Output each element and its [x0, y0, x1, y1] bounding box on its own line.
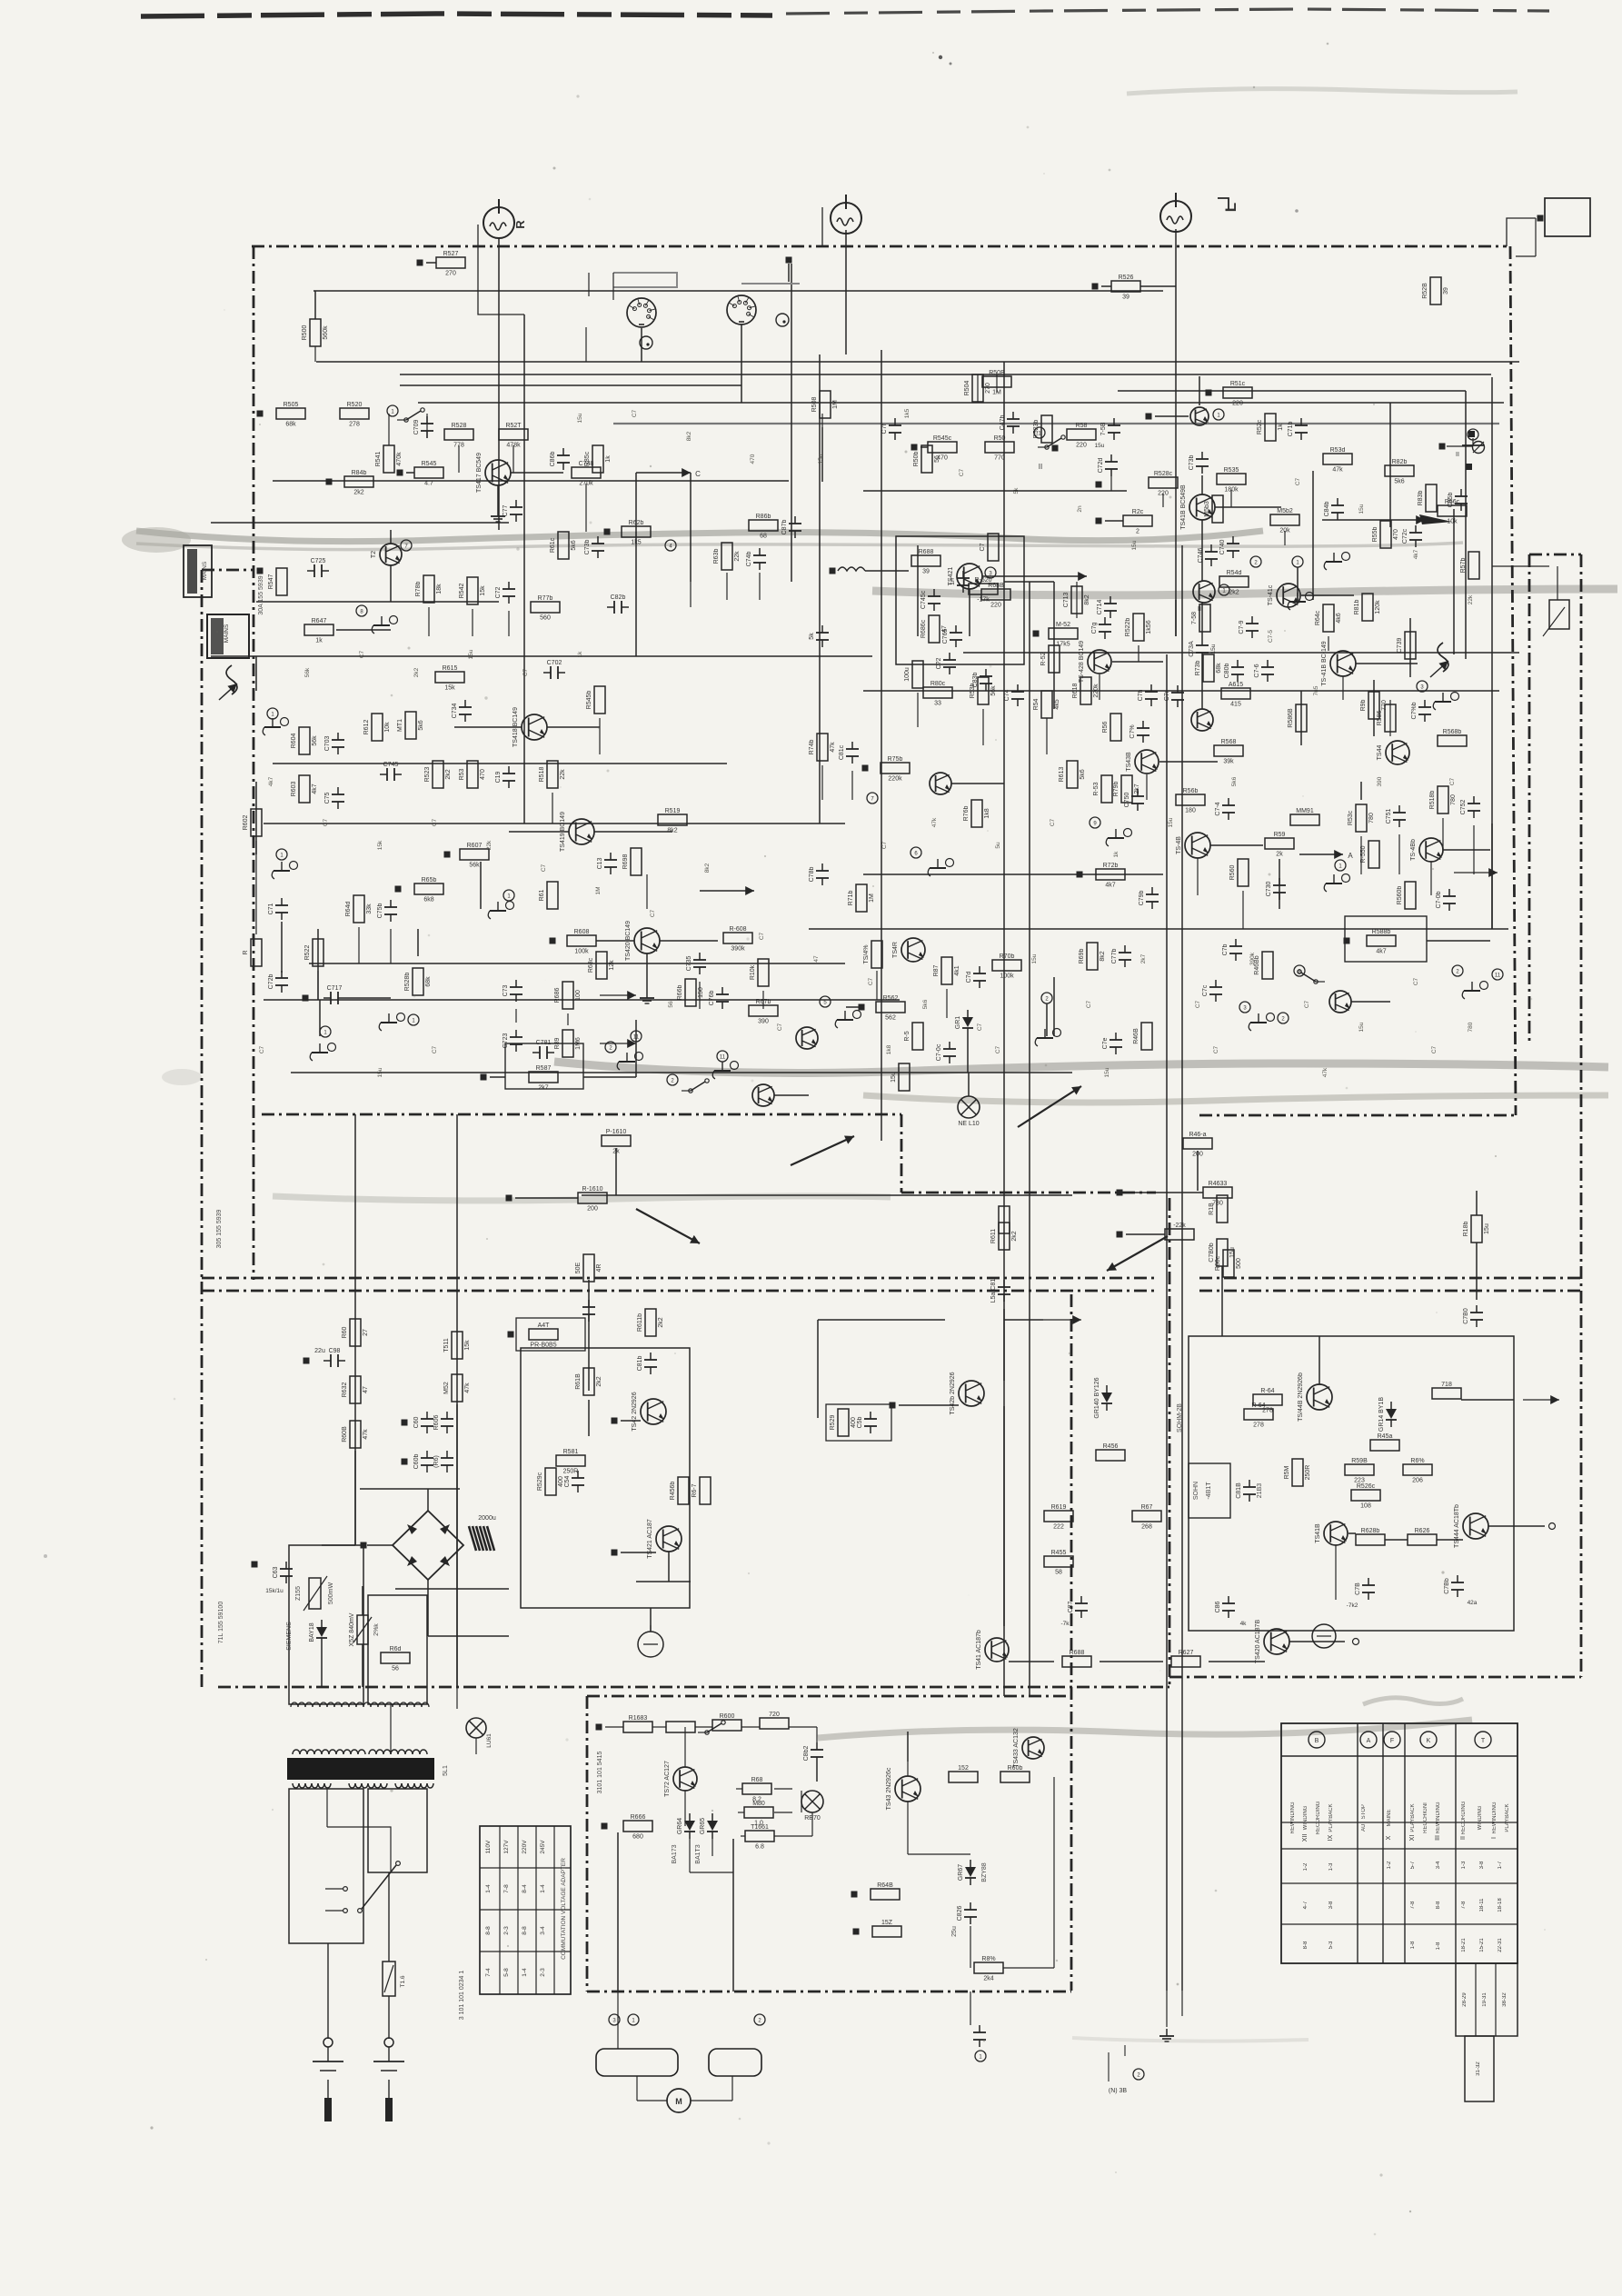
wire	[920, 446, 928, 448]
svg-text:R647: R647	[312, 618, 327, 624]
transistor TS420 BC149	[625, 921, 660, 961]
svg-text:C7: C7	[995, 1045, 1001, 1053]
svg-text:18-11: 18-11	[1479, 1898, 1485, 1912]
wire	[1476, 1191, 1478, 1215]
border motor box left	[586, 1696, 589, 1992]
arrow	[700, 890, 754, 892]
gray wire loop around DIN	[613, 273, 800, 287]
svg-text:206: 206	[1412, 1478, 1423, 1484]
wire	[865, 570, 909, 572]
capacitor C714	[1097, 596, 1117, 618]
node 7	[867, 793, 878, 804]
svg-text:8k2: 8k2	[704, 863, 711, 873]
svg-text:SOHN: SOHN	[1193, 1482, 1199, 1500]
capacitor	[582, 1300, 595, 1322]
wire	[395, 1588, 509, 1590]
wire	[336, 629, 391, 631]
wire	[360, 1488, 460, 1490]
wire	[907, 1762, 909, 1776]
resistor R688	[911, 549, 940, 575]
resistor TS/4%	[863, 941, 882, 968]
svg-text:III: III	[1435, 1835, 1441, 1841]
svg-text:18-18: 18-18	[1498, 1898, 1503, 1912]
svg-text:68k: 68k	[1216, 663, 1222, 674]
svg-text:II: II	[1456, 452, 1459, 458]
wire	[970, 1926, 971, 1968]
capacitor C98	[323, 1348, 345, 1367]
resistor R9b	[1360, 692, 1388, 719]
svg-text:C752: C752	[1460, 800, 1467, 815]
svg-text:REWINDING: REWINDING	[1492, 1802, 1498, 1833]
resistor R85c	[584, 445, 612, 473]
arrow	[1523, 1399, 1559, 1401]
svg-text:M5b2: M5b2	[1277, 508, 1293, 514]
svg-text:REWINDING: REWINDING	[1290, 1802, 1296, 1833]
svg-text:C19: C19	[495, 771, 502, 783]
capacitor C723	[503, 1030, 522, 1052]
svg-text:5k6: 5k6	[418, 720, 424, 730]
svg-text:5k6: 5k6	[1394, 479, 1404, 485]
resistor C7	[980, 534, 999, 561]
svg-text:15u: 15u	[891, 1072, 897, 1083]
svg-text:470: 470	[750, 454, 756, 464]
capacitor C735	[686, 953, 706, 974]
svg-text:15k: 15k	[444, 685, 455, 692]
svg-text:R518b: R518b	[1429, 791, 1436, 810]
svg-text:4k7: 4k7	[1376, 949, 1386, 955]
wire	[1360, 782, 1362, 800]
wire	[1201, 520, 1203, 581]
svg-text:B: B	[1315, 1738, 1319, 1744]
svg-text:C87: C87	[1068, 1601, 1074, 1612]
svg-text:C765: C765	[942, 629, 949, 644]
resistor R73b	[1195, 654, 1222, 682]
wire	[1491, 824, 1493, 929]
svg-text:TS41B BC549B: TS41B BC549B	[1180, 484, 1187, 530]
ground	[310, 1043, 335, 1062]
svg-text:42a: 42a	[1468, 1600, 1478, 1606]
svg-text:22k: 22k	[486, 840, 493, 850]
svg-text:C72d: C72d	[1098, 458, 1104, 474]
resistor R62b	[622, 520, 651, 546]
svg-text:R18b: R18b	[1463, 1222, 1469, 1237]
svg-text:R-64: R-64	[1260, 1388, 1274, 1394]
resistor R-5	[904, 1023, 923, 1050]
resistor R-550	[1360, 841, 1379, 868]
border box1 bottom mid segment	[901, 1192, 1156, 1194]
svg-text:15u: 15u	[1031, 953, 1038, 963]
border section2 top double line upper	[202, 1277, 1156, 1280]
svg-text:R72b: R72b	[1103, 863, 1119, 869]
erase head	[1430, 643, 1448, 677]
resistor R619	[1044, 1504, 1073, 1531]
svg-text:A: A	[1367, 1738, 1371, 1744]
svg-text:MT1: MT1	[397, 719, 403, 732]
svg-text:56: 56	[934, 455, 940, 463]
terminal	[402, 1420, 408, 1426]
inductor L5	[838, 567, 865, 571]
svg-text:C7-6: C7-6	[1254, 664, 1260, 677]
arrow	[791, 1136, 854, 1165]
wire	[1215, 506, 1281, 508]
svg-text:56k: 56k	[304, 667, 311, 677]
svg-text:R70b: R70b	[1000, 953, 1015, 960]
wire trunk	[309, 963, 845, 964]
transistor	[796, 1027, 818, 1049]
wire	[817, 1320, 819, 1418]
arrow	[600, 994, 636, 996]
svg-text:15u: 15u	[377, 1067, 383, 1077]
terminal	[1096, 482, 1102, 488]
diode GR140 BY126	[1094, 1377, 1112, 1418]
node 1	[1213, 409, 1224, 420]
capacitor C717	[323, 985, 345, 1004]
svg-text:R627: R627	[1179, 1650, 1194, 1656]
svg-text:R4633: R4633	[1209, 1181, 1228, 1187]
terminal	[304, 1358, 310, 1364]
svg-text:22u: 22u	[314, 1348, 325, 1354]
svg-text:R84b: R84b	[352, 470, 367, 476]
svg-text:R: R	[243, 950, 249, 954]
svg-text:-4B1T: -4B1T	[1206, 1482, 1212, 1500]
svg-text:7-5B: 7-5B	[1100, 422, 1107, 435]
capacitor C781	[532, 1040, 554, 1059]
wire	[317, 929, 319, 1000]
svg-text:R54: R54	[1033, 698, 1040, 710]
wire	[497, 485, 499, 509]
capacitor C76b	[709, 987, 729, 1009]
svg-text:3-4: 3-4	[1436, 1861, 1441, 1869]
lamp NE L10	[958, 1096, 980, 1127]
resistor R618	[1072, 677, 1100, 704]
svg-text:C7-9: C7-9	[1239, 620, 1245, 634]
svg-text:R65b: R65b	[422, 877, 437, 883]
switch contact	[682, 1079, 709, 1093]
svg-text:C13: C13	[597, 857, 603, 869]
svg-text:15u: 15u	[468, 649, 474, 659]
svg-text:152: 152	[958, 1765, 969, 1772]
wire	[1126, 1233, 1165, 1235]
svg-text:C71b: C71b	[1288, 422, 1294, 437]
svg-text:PLAYBACK: PLAYBACK	[1505, 1803, 1510, 1832]
node 7	[401, 540, 412, 551]
capacitor C71	[268, 898, 288, 920]
node 2	[1278, 1013, 1289, 1023]
lower winding boxes	[289, 1789, 363, 1943]
svg-text:-17k: -17k	[977, 597, 990, 604]
capacitor C750	[1124, 789, 1144, 811]
wire	[791, 480, 792, 482]
svg-text:GR14 BY1B: GR14 BY1B	[1378, 1397, 1385, 1432]
resistor R68c	[588, 952, 615, 979]
resistor R53c	[1348, 804, 1375, 832]
svg-text:R528: R528	[452, 423, 467, 429]
wire	[621, 1552, 656, 1553]
wire	[668, 1552, 670, 1582]
wire	[1175, 600, 1177, 636]
wire vertical	[456, 1114, 458, 1687]
wire	[1279, 859, 1280, 909]
wire	[509, 831, 569, 833]
wire	[1140, 285, 1176, 287]
svg-text:C8b2: C8b2	[803, 1746, 810, 1762]
ground	[1288, 593, 1313, 611]
svg-text:R52B: R52B	[1422, 283, 1428, 299]
border box1 bottom left segment	[262, 1113, 901, 1116]
capacitor C7Bb	[1444, 1575, 1464, 1597]
transistor TS43B	[1126, 750, 1159, 774]
svg-text:XII: XII	[1302, 1834, 1309, 1842]
transistor TS41 AC187b	[976, 1630, 1009, 1670]
svg-text:R455: R455	[1051, 1550, 1067, 1556]
svg-text:3-8: 3-8	[1328, 1901, 1334, 1909]
svg-text:390: 390	[758, 1019, 769, 1025]
node 2	[667, 1074, 678, 1085]
terminal	[397, 470, 403, 476]
resistor R55b	[1372, 521, 1399, 548]
svg-text:470: 470	[1393, 529, 1399, 540]
svg-text:58: 58	[1055, 1570, 1062, 1576]
svg-text:C81c: C81c	[839, 744, 845, 760]
wire	[650, 1608, 652, 1632]
svg-text:R611: R611	[990, 1229, 997, 1243]
svg-text:220: 220	[1232, 401, 1243, 407]
svg-text:C750: C750	[1124, 793, 1130, 808]
ground	[1462, 982, 1488, 1000]
svg-text:4-7: 4-7	[1303, 1901, 1309, 1909]
node 2	[1250, 556, 1261, 567]
svg-text:22k: 22k	[734, 551, 741, 562]
svg-text:R50: R50	[994, 435, 1006, 442]
wire to motor plug	[970, 1992, 971, 2025]
ground	[1159, 2029, 1174, 2041]
svg-text:4k7: 4k7	[1105, 883, 1115, 889]
svg-text:R523: R523	[424, 767, 431, 783]
svg-text:C7: C7	[259, 1045, 265, 1053]
pot in right dashed box	[1549, 600, 1569, 629]
wire	[1201, 660, 1203, 709]
svg-text:1-8: 1-8	[1410, 1941, 1416, 1949]
svg-text:R603: R603	[291, 782, 297, 797]
resistor R5M	[1284, 1459, 1311, 1486]
trim pot right top	[1473, 442, 1485, 454]
node 1	[975, 2051, 986, 2061]
resistor R611	[990, 1223, 1018, 1250]
switch contact	[1298, 970, 1325, 983]
wire	[585, 327, 587, 362]
svg-text:M: M	[675, 2097, 682, 2106]
svg-text:C76b: C76b	[709, 991, 715, 1006]
wire head R frame	[478, 225, 524, 314]
lower coil bumps	[293, 1783, 433, 1788]
svg-text:R50b: R50b	[913, 452, 920, 467]
capacitor C60b	[413, 1451, 433, 1472]
svg-text:TS-41c: TS-41c	[1268, 584, 1274, 605]
capacitor C84b	[1324, 498, 1344, 520]
resistor R50B	[982, 370, 1011, 396]
wire	[419, 266, 421, 291]
wire	[899, 1404, 959, 1406]
svg-text:400: 400	[851, 1417, 857, 1428]
svg-text:TS44: TS44	[1377, 745, 1383, 761]
resistor R586	[1377, 704, 1396, 732]
resistor R-64	[1253, 1388, 1282, 1414]
wire	[1418, 621, 1556, 623]
wire	[1169, 1191, 1170, 1331]
gray scribble above table	[1363, 1698, 1463, 1704]
svg-text:R666: R666	[631, 1814, 646, 1821]
svg-text:15k/1u: 15k/1u	[265, 1588, 284, 1594]
svg-text:1k56: 1k56	[1146, 620, 1152, 634]
capacitor 7-5B	[1100, 418, 1120, 440]
svg-text:R56b: R56b	[1183, 788, 1199, 794]
capacitor C73	[503, 980, 522, 1002]
resistor R686c	[920, 615, 948, 643]
wire	[684, 1791, 686, 1826]
node 1	[1292, 556, 1303, 567]
svg-text:5k6: 5k6	[922, 999, 929, 1009]
L bracket mark	[1218, 198, 1229, 209]
svg-text:BA1T3: BA1T3	[695, 1844, 702, 1864]
wire	[689, 1839, 691, 1872]
wire vertical	[498, 239, 500, 530]
border section2 top double line lower	[202, 1290, 1156, 1293]
svg-text:C7: C7	[1449, 777, 1456, 785]
resistor R611b	[637, 1309, 664, 1336]
wire	[635, 1020, 637, 1077]
svg-text:T: T	[1481, 1738, 1486, 1744]
svg-text:R529c: R529c	[537, 1472, 543, 1491]
wire transformer down-right	[388, 1872, 390, 1962]
svg-text:15u: 15u	[1131, 540, 1138, 550]
svg-text:1k5: 1k5	[904, 408, 911, 418]
resistor R4633	[1203, 1181, 1232, 1207]
svg-text:C740: C740	[1219, 540, 1226, 555]
switch contact	[397, 408, 424, 422]
svg-text:R1B: R1B	[1209, 1203, 1215, 1215]
wire	[1216, 479, 1218, 494]
arrow	[1454, 872, 1498, 873]
ground	[835, 1011, 861, 1029]
resistor R-52	[1040, 645, 1060, 673]
resistor R46B	[1133, 1023, 1152, 1050]
svg-text:718: 718	[1441, 1382, 1452, 1388]
resistor R518b	[1429, 786, 1457, 814]
node 2	[1452, 965, 1463, 976]
resistor R613	[1059, 761, 1086, 788]
capacitor C5b	[857, 1412, 877, 1433]
resistor R81b	[1354, 594, 1381, 621]
svg-text:8-8: 8-8	[1436, 1901, 1441, 1909]
svg-text:1k: 1k	[605, 455, 612, 463]
transistor	[1191, 709, 1213, 731]
capacitor C7b	[1222, 939, 1242, 961]
svg-text:C702: C702	[547, 660, 562, 666]
svg-text:R73b: R73b	[1195, 661, 1201, 676]
resistor R6%	[1403, 1458, 1432, 1484]
svg-text:47k: 47k	[830, 742, 836, 753]
svg-text:C7c: C7c	[1202, 984, 1209, 996]
svg-text:BAY18: BAY18	[309, 1622, 315, 1642]
svg-text:R45a: R45a	[1378, 1433, 1393, 1440]
resistor R61B	[575, 1368, 602, 1395]
node 1	[1335, 860, 1346, 871]
svg-text:305 155 5939: 305 155 5939	[216, 1209, 223, 1248]
wire	[1535, 218, 1537, 256]
wire	[1009, 1661, 1054, 1662]
svg-text:C7: C7	[959, 468, 965, 476]
svg-text:TS41B: TS41B	[1315, 1523, 1321, 1543]
capacitor C81b	[637, 1353, 657, 1374]
arrow	[636, 472, 691, 474]
svg-text:P-1610: P-1610	[606, 1129, 627, 1135]
transistor TS4R	[892, 938, 925, 962]
svg-text:C63: C63	[273, 1566, 279, 1578]
svg-text:R60: R60	[342, 1326, 348, 1338]
svg-text:R612: R612	[363, 720, 370, 735]
svg-text:RECCHIGNI: RECCHIGNI	[1423, 1802, 1428, 1833]
svg-text:-22k: -22k	[1173, 1223, 1186, 1229]
svg-text:R55b: R55b	[1372, 527, 1378, 543]
resistor R526c	[1351, 1483, 1380, 1510]
wire trunk	[309, 823, 845, 824]
svg-text:R586B: R586B	[1288, 708, 1294, 728]
svg-text:TS42b 2N2926: TS42b 2N2926	[950, 1372, 956, 1414]
svg-text:390k: 390k	[1249, 952, 1256, 965]
svg-text:R53c: R53c	[1348, 810, 1354, 825]
svg-text:R527: R527	[443, 251, 459, 257]
resistor R60B	[342, 1421, 369, 1448]
resistor R6d	[381, 1646, 410, 1672]
node 9	[1090, 817, 1100, 828]
svg-text:5-3: 5-3	[1328, 1941, 1334, 1949]
resistor P-1610	[602, 1129, 631, 1155]
capacitor C13	[597, 853, 617, 874]
svg-text:R60B: R60B	[342, 1426, 348, 1442]
wire	[1301, 594, 1354, 596]
wire vertical	[690, 473, 692, 582]
transistor TS433 AC132	[1013, 1728, 1044, 1768]
svg-text:R77b: R77b	[538, 595, 553, 602]
svg-text:R46B: R46B	[1133, 1028, 1139, 1044]
transistor TS420 AC187B	[1255, 1620, 1289, 1664]
capacitor C19	[495, 766, 515, 788]
resistor R76b	[963, 800, 990, 827]
resistor R46-a	[1183, 1132, 1212, 1158]
terminal	[1344, 938, 1350, 944]
ground	[1324, 874, 1349, 893]
wire vertical	[1029, 582, 1030, 1696]
svg-text:15-21: 15-21	[1479, 1938, 1485, 1952]
wire	[1427, 940, 1490, 942]
wire	[907, 1802, 909, 1854]
svg-text:BA173: BA173	[672, 1844, 678, 1863]
wire stubs net	[314, 346, 316, 362]
transistor TS417 BC549	[476, 453, 511, 493]
wire vertical	[845, 230, 847, 354]
svg-text:A615: A615	[1229, 682, 1243, 688]
capacitor C7B0	[1463, 1305, 1483, 1327]
svg-text:TS41 AC187b: TS41 AC187b	[976, 1630, 982, 1670]
svg-text:50E: 50E	[575, 1262, 582, 1273]
resistor R2c	[1123, 509, 1152, 535]
svg-text:MAINE: MAINE	[1387, 1809, 1392, 1826]
svg-text:560k: 560k	[323, 325, 329, 340]
resistor R79b	[1113, 775, 1140, 803]
svg-text:C7g: C7g	[1091, 622, 1098, 634]
resistor R64d	[345, 895, 373, 923]
border right subbox bottom	[1169, 1676, 1581, 1679]
